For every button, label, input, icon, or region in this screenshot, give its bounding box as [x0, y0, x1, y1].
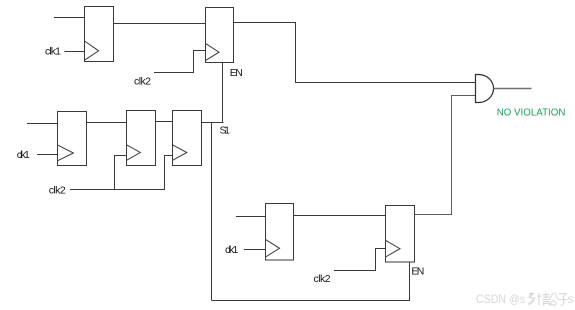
flip-flop U7 body — [386, 206, 415, 263]
wire U2 Q to AND gate top input — [234, 23, 476, 83]
wire U4 Q to U5 D — [155, 121, 173, 123]
flip-flop U2 body — [206, 8, 234, 63]
svg-text:S1: S1 — [220, 125, 231, 137]
svg-text:NO VIOLATION: NO VIOLATION — [497, 107, 566, 119]
flip-flop U5 clock triangle — [173, 145, 187, 161]
svg-text:CSDN @s: CSDN @s — [476, 292, 525, 306]
svg-text:clk2: clk2 — [49, 185, 66, 197]
glyph qing — [537, 292, 550, 305]
svg-text:clk1: clk1 — [17, 149, 30, 161]
svg-text:EN: EN — [411, 266, 424, 278]
flip-flop U6 body — [266, 204, 294, 261]
wire U5 Q to node S1 — [202, 122, 224, 124]
wire AND gate output — [494, 88, 532, 90]
wire U6 Q to U7 D — [294, 215, 386, 217]
flip-flop U4 body — [127, 111, 156, 166]
watermark CSDN — [476, 292, 574, 306]
wire node S1 down — [211, 123, 213, 301]
wire clk2 to U2 clock — [154, 51, 206, 73]
wire U2 EN down to node S1 — [222, 63, 224, 123]
wire U3 D input — [27, 123, 58, 125]
wire U6 D input — [236, 216, 266, 218]
svg-text:clk1: clk1 — [45, 46, 61, 58]
wire clk1 to U6 clock — [244, 249, 266, 251]
glyph duo — [528, 292, 535, 304]
flip-flop U6 clock triangle — [266, 239, 280, 257]
wire U1 D input — [54, 17, 85, 19]
svg-text:clk1: clk1 — [225, 244, 238, 256]
wire clk2 to U4 and U5 clocks — [70, 156, 173, 190]
glyph gong — [550, 293, 558, 305]
svg-text:clk2: clk2 — [314, 273, 331, 285]
flip-flop U1 body — [85, 7, 114, 62]
flip-flop U3 body — [58, 112, 87, 166]
wire clk1 to U1 clock — [65, 51, 85, 53]
wire U3 Q to U4 D — [86, 122, 127, 124]
wire U7 Q up to AND gate bottom input — [415, 96, 476, 215]
wire clk2 to U7 clock — [334, 249, 386, 271]
glyph zi — [558, 294, 568, 306]
wire clk1 to U3 clock — [37, 154, 58, 156]
AND gate G1 — [476, 75, 494, 103]
flip-flop U5 body — [173, 111, 202, 166]
wire U1 Q to U2 D — [114, 23, 206, 25]
flip-flop U2 clock triangle — [206, 43, 220, 60]
svg-text:EN: EN — [230, 67, 243, 79]
flip-flop U1 clock triangle — [85, 41, 99, 60]
svg-text:clk2: clk2 — [134, 76, 151, 88]
flip-flop U3 clock triangle — [58, 145, 74, 161]
svg-text:s: s — [568, 292, 574, 306]
flip-flop U4 clock triangle — [127, 145, 141, 161]
wire bottom bus to U7 EN — [212, 263, 410, 301]
watermark CJK glyphs (hand drawn) — [528, 292, 568, 305]
flip-flop U7 clock triangle — [386, 240, 401, 257]
